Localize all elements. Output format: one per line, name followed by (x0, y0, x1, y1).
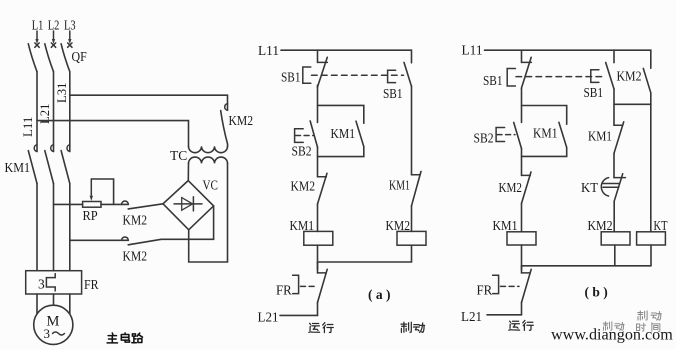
contact KM2 (DC-) blade (128, 239, 161, 245)
svg-text:FR: FR (477, 283, 493, 298)
svg-text:L11: L11 (462, 43, 483, 58)
caption 运行 (a) (309, 323, 334, 333)
watermark 制动 row1 (638, 311, 662, 320)
svg-text:SB2: SB2 (474, 131, 494, 146)
contact KM1 NC interlock blade (a) (412, 171, 422, 205)
wire: KM1 interlock to KM2 coil (a) (411, 206, 413, 232)
transformer TC primary winding (189, 146, 228, 152)
pushbutton SB2 NO blade (b) (514, 122, 522, 148)
pushbutton SB1 NC blade (b, run branch) (521, 57, 531, 88)
wire: FR to L21 (a) (317, 303, 319, 316)
wire: KM2 interlock to KM1 coil (a) (317, 204, 319, 231)
wire: left branch SB2 to KM2 interlock (a) (317, 147, 319, 177)
pushbutton SB1 NO actuator bracket (a) (388, 70, 396, 82)
wire: coil bottoms joining rail (a) (318, 245, 412, 262)
svg-text:L11: L11 (258, 43, 279, 58)
svg-text:KM1: KM1 (331, 126, 356, 141)
pushbutton SB2 linkage dashed (b) (497, 134, 515, 136)
wire: bottom joining rail (b) (522, 265, 651, 267)
wire: bottom junction to FR contact (a) (317, 262, 319, 273)
coil KM1 body (b) (507, 232, 536, 245)
breaker QF pole 3 blade (61, 44, 70, 72)
contact KT NC delayed blade (b) (614, 174, 623, 201)
pushbutton SB1 NC tick (a) (318, 61, 328, 63)
motor M circle (34, 305, 73, 344)
wire: KM1 self-lock branch bottom (b) (522, 148, 567, 157)
breaker QF pole 1 blade (28, 44, 37, 72)
contactor KM1 main contact pole3 blade (61, 151, 70, 184)
wire: phase C vertical (KM1 to FR) (69, 184, 71, 271)
wire: L1 incoming arrow (35, 31, 38, 44)
wire: L21 rail (b) (487, 314, 522, 316)
wire: KM2 blade to TC primary right (227, 144, 229, 146)
wire: L31 bus to braking contactor (70, 95, 228, 110)
contactor KM1 main contact pole2 arc (51, 145, 54, 152)
svg-text:KM2: KM2 (291, 179, 316, 194)
wire: phase C tap to KM2 braking contact (70, 239, 129, 241)
wire: phase L31 vertical (QF to KM1) (69, 72, 71, 152)
svg-text:www.diangon.com: www.diangon.com (551, 326, 673, 343)
contact KM1 NC interlock blade (b, brake) (614, 122, 624, 153)
wire: KM2 DC- to rectifier right corner (161, 206, 213, 239)
wire: top rail (a) (281, 50, 412, 63)
wire: phase L21 vertical (QF to KM1) (53, 72, 55, 152)
svg-text:SB1: SB1 (383, 86, 403, 101)
thermal relay FR heater symbol (46, 274, 55, 291)
pushbutton SB2 actuator bracket (b) (496, 128, 505, 142)
wire: SB1 NO branch top stub (b) (613, 50, 615, 62)
wire: phase L11 vertical (QF to KM1) (36, 72, 38, 152)
svg-text:KM1: KM1 (588, 129, 612, 144)
thermal relay FR box (26, 271, 82, 294)
contact FR linkage dashed (a) (301, 285, 316, 287)
contact KM2 (DC+ braking) arc (122, 201, 129, 204)
svg-text:L11: L11 (21, 117, 35, 137)
pushbutton SB1 linkage dashed (b) (516, 76, 605, 78)
wire: KT coil to bottom rail (b) (650, 245, 652, 266)
contact FR NC tick (a) (318, 272, 327, 274)
coil KM2 body (b) (601, 232, 630, 245)
contact FR linkage dashed (b) (501, 285, 520, 287)
svg-text:KM1: KM1 (389, 178, 410, 193)
wire: L21 rail (a) (280, 314, 318, 316)
contact FR NC blade (b) (522, 269, 532, 302)
rectifier VC diode symbol (174, 197, 202, 211)
svg-text:SB1: SB1 (483, 73, 503, 88)
wire: left branch top stub (b) (521, 50, 523, 62)
svg-text:( a ): ( a ) (368, 287, 391, 302)
contact KM1 NC interlock tick (b, brake) (614, 124, 623, 126)
pushbutton SB2 actuator bracket (a) (295, 129, 304, 143)
caption 运行 (b) (509, 320, 534, 330)
watermark 时间 row2 (636, 323, 659, 332)
svg-text:3: 3 (38, 277, 45, 292)
contact KM2 NO blade (b, self-hold brake) (643, 68, 651, 92)
wire: left branch SB1 to SB2 (b) (521, 89, 523, 123)
resistor RP body (83, 202, 101, 208)
svg-text:KM2: KM2 (499, 180, 523, 195)
contact FR NC blade (a) (318, 269, 328, 302)
svg-text:SB2: SB2 (292, 144, 312, 159)
contact KM2 NC interlock tick (b) (522, 174, 531, 176)
pushbutton SB1 NC tick (b) (522, 61, 532, 63)
pushbutton SB1 NC blade (a, run branch) (317, 57, 327, 87)
svg-text:KT: KT (581, 180, 599, 195)
contact KM2 (DC+ braking) blade (128, 204, 163, 209)
svg-text:L3: L3 (64, 18, 76, 33)
rectifier VC diamond (163, 181, 214, 230)
wire: TC secondary left to rectifier top (187, 163, 189, 180)
svg-text:( b ): ( b ) (585, 285, 608, 300)
wire: L2 incoming arrow (52, 31, 55, 44)
wire: KM1 self-lock branch top (a) (318, 105, 364, 123)
caption 制动 (a) (401, 322, 425, 332)
contact KM2 NC interlock blade (a) (318, 173, 328, 204)
wire: top rail (b) (485, 50, 651, 68)
pushbutton SB2 linkage dashed (a) (296, 135, 314, 137)
wire: KM2 interlock to KM1 coil (b) (521, 203, 523, 231)
contactor KM1 main contact pole1 blade (28, 151, 37, 184)
resistor RP wiper arrow (90, 179, 93, 201)
wire: KM1 coil to bottom rail (b) (521, 245, 523, 269)
svg-text:KM1: KM1 (290, 218, 315, 233)
contact KT NC delayed tick (b) (614, 177, 625, 179)
contact KM2 (top, to TC primary) arc (225, 104, 228, 111)
wire: SB1 NO to junction (b) (613, 89, 615, 125)
svg-text:KM1: KM1 (5, 160, 31, 175)
wire: junction rail between brake branches (b) (614, 103, 651, 105)
coil KT body (b) (637, 232, 666, 245)
contact KM2 NC interlock blade (b) (522, 172, 532, 203)
svg-text:L1: L1 (32, 18, 44, 33)
wire: phase B tap to rheostat RP (54, 203, 83, 205)
svg-text:L21: L21 (461, 309, 482, 324)
svg-text:L31: L31 (55, 83, 69, 103)
contact KM2 NC interlock tick (a) (318, 176, 327, 178)
wire: KM1 self-lock branch top (b) (522, 106, 567, 125)
svg-text:L2: L2 (48, 18, 60, 33)
wire: left branch top stub (a) (317, 50, 319, 62)
svg-text:TC: TC (170, 148, 187, 163)
wire: phase B FR to motor (53, 294, 55, 305)
svg-text:KM2: KM2 (588, 218, 613, 233)
wire: phase A FR to motor (36, 294, 38, 314)
contactor KM1 main contact pole1 arc (34, 145, 37, 152)
wire: KM1 coil to bottom junction (a) (317, 245, 319, 269)
contact KT delay semicircle (b) (601, 178, 608, 196)
wire: KM2 NO branch down to junction (b) (650, 93, 652, 105)
svg-text:KM1: KM1 (533, 126, 558, 141)
wire: brake branch SB1 to KM1 interlock (a) (411, 86, 413, 174)
wire: L11 bus to transformer primary (37, 121, 189, 147)
contact FR actuator bracket (a) (293, 275, 299, 293)
svg-text:QF: QF (72, 49, 88, 64)
wire: RP to KM2 braking contact (101, 203, 128, 205)
svg-text:SB1: SB1 (281, 70, 301, 85)
wire: phase B vertical (KM1 to FR) (53, 184, 55, 271)
svg-text:KM2: KM2 (123, 213, 148, 228)
pushbutton SB1 NO blade (a, brake branch) (404, 62, 412, 86)
wire: KM1 self-lock branch bottom (a) (318, 147, 364, 157)
transformer TC secondary winding (189, 157, 228, 163)
coil KM2 body (a) (397, 231, 426, 245)
wire: KM2 coil to bottom rail (b) (614, 245, 616, 266)
contact KM2 (DC-) arc (122, 237, 129, 240)
pushbutton SB1 NC actuator bracket (a) (303, 67, 311, 83)
wire: L3 incoming arrow (68, 31, 71, 44)
contact KT delay bars (b) (603, 184, 619, 188)
svg-text:FR: FR (276, 283, 292, 298)
svg-text:KM2: KM2 (229, 113, 254, 128)
terminal x L3 (68, 43, 72, 47)
svg-text:KM2: KM2 (123, 249, 148, 264)
svg-text:KT: KT (654, 218, 669, 233)
svg-text:SB1: SB1 (584, 85, 604, 100)
contact KM2 (top, to TC primary) blade (221, 111, 228, 145)
svg-text:3: 3 (44, 326, 51, 341)
contactor KM1 main contact pole3 arc (67, 145, 70, 152)
wire: left branch SB2 to KM2 interlock (b) (521, 149, 523, 176)
svg-text:L21: L21 (258, 310, 279, 325)
wire: KM1 interlock to KT contact (b) (613, 153, 615, 177)
watermark 制动 row2 (603, 322, 624, 331)
svg-text:KM1: KM1 (493, 218, 518, 233)
pushbutton SB1 NO blade (b, brake) (606, 63, 614, 90)
wire: TC secondary right down and around to rectifier bottom (189, 163, 228, 262)
wire: left branch SB1 to SB2 (a) (317, 85, 319, 122)
svg-text:RP: RP (83, 208, 98, 223)
contact FR NC tick (b) (522, 272, 531, 274)
breaker QF pole 2 blade (45, 44, 54, 72)
contact KM1 NC interlock tick (a) (412, 174, 421, 176)
wire: phase A vertical (KM1 to FR) (36, 184, 38, 271)
svg-text:KM2: KM2 (386, 218, 411, 233)
svg-text:FR: FR (84, 277, 99, 292)
contactor KM1 main contact pole2 blade (45, 151, 54, 184)
pushbutton SB1 NC actuator bracket (b) (507, 69, 515, 87)
wire: bottom rail to FR contact (b) (521, 266, 523, 273)
wire: right branch down to KT coil (b) (650, 104, 652, 232)
wire: phase C FR to motor (69, 294, 71, 314)
contact FR actuator bracket (b) (493, 275, 499, 293)
wire: RP wiper loop (91, 179, 113, 204)
svg-text:KM2: KM2 (617, 69, 642, 84)
pushbutton SB1 linkage dashed (a) (312, 74, 404, 76)
wire: KT contact to KM2 coil (b) (613, 201, 615, 232)
pushbutton SB2 NO blade (a) (310, 121, 317, 147)
wire: FR to L21 (b) (521, 303, 523, 315)
terminal x L2 (51, 43, 55, 47)
caption 主电路 (bold) (107, 333, 142, 343)
contact KM1 NO self-lock blade (a) (356, 121, 364, 146)
coil KM1 body (a) (304, 231, 333, 245)
contact KM1 NO self-lock blade (b) (559, 122, 567, 147)
pushbutton SB1 NO actuator bracket (b) (591, 70, 599, 83)
svg-text:VC: VC (203, 178, 219, 193)
motor tilde (53, 332, 65, 335)
terminal x L1 (35, 43, 39, 47)
